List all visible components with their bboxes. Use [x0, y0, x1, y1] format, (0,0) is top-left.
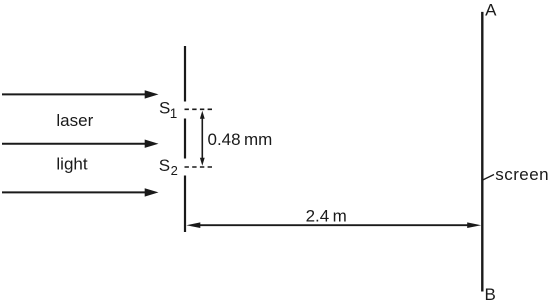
slit separation double-headed arrow	[200, 111, 205, 166]
barrier middle segment	[184, 119, 186, 159]
slit S2 dashed centreline	[185, 166, 214, 168]
slit S1 dashed centreline	[185, 108, 214, 110]
svg-text:1: 1	[170, 106, 178, 121]
label S1	[159, 99, 177, 122]
svg-text:screen: screen	[495, 165, 548, 184]
label S2	[159, 156, 178, 178]
screen leader line	[483, 175, 494, 181]
barrier lower segment	[184, 176, 186, 233]
distance dimension double arrow (2.4 m)	[186, 222, 481, 228]
laser beam arrow 2	[2, 140, 159, 148]
laser beam arrow 3	[2, 188, 159, 196]
svg-text:B: B	[485, 285, 496, 302]
laser beam arrow 1	[2, 90, 159, 98]
svg-text:S: S	[159, 156, 170, 175]
svg-text:2.4 m: 2.4 m	[306, 207, 347, 226]
svg-text:S: S	[159, 99, 170, 118]
svg-text:2: 2	[171, 163, 178, 178]
svg-text:0.48 mm: 0.48 mm	[208, 130, 273, 149]
barrier upper segment	[184, 46, 186, 102]
svg-text:A: A	[485, 0, 497, 19]
svg-text:light: light	[56, 155, 87, 174]
svg-text:laser: laser	[56, 111, 93, 130]
screen line	[481, 12, 483, 292]
